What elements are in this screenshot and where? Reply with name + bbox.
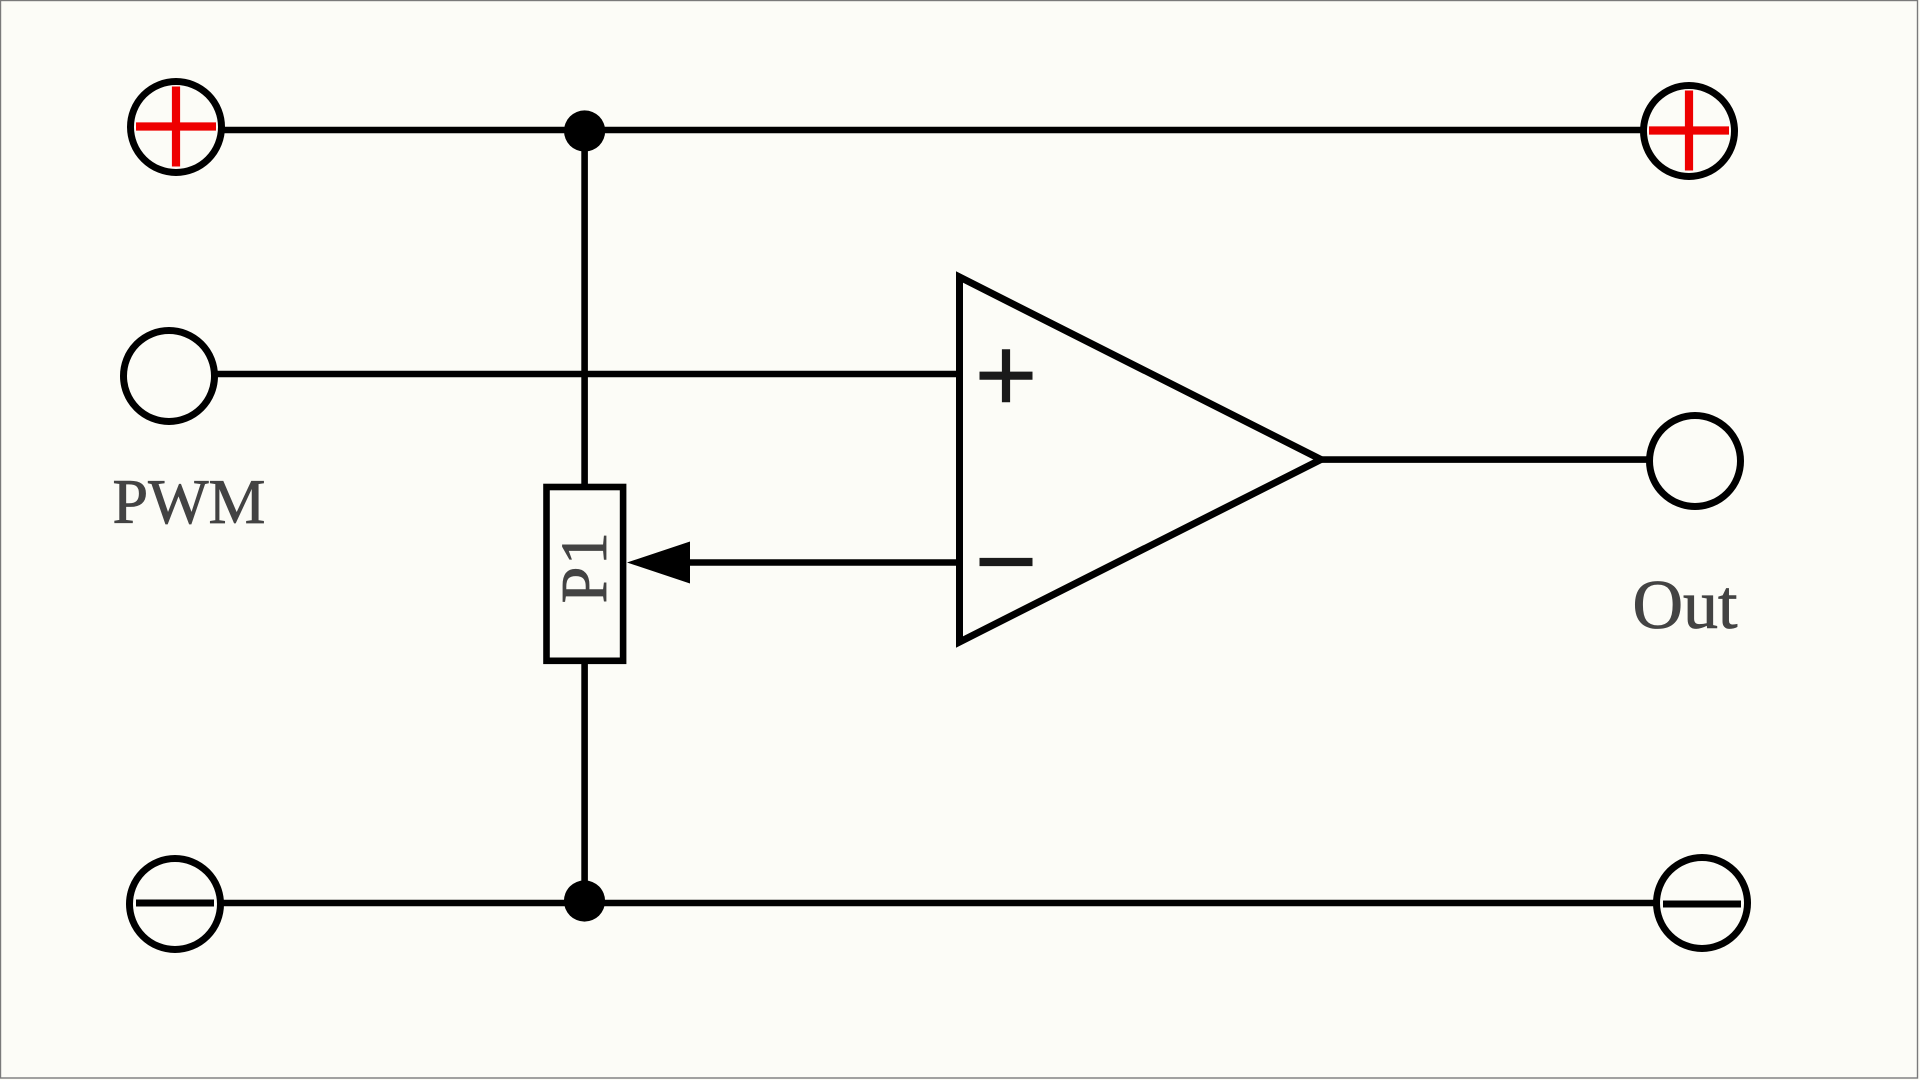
potentiometer P1 <box>547 487 624 661</box>
terminal PWM <box>124 331 215 422</box>
wire junction to P1 top <box>581 131 588 490</box>
svg-text:P1: P1 <box>548 531 621 604</box>
wire op-amp output to Out <box>1318 456 1648 463</box>
junction bottom rail <box>564 880 605 921</box>
svg-text:Out: Out <box>1633 567 1739 644</box>
junction top rail <box>564 110 605 151</box>
svg-text:PWM: PWM <box>113 466 266 537</box>
power terminal +V right <box>1644 86 1735 177</box>
terminal Out <box>1650 416 1741 507</box>
wire P1 bottom to bottom rail <box>581 660 588 903</box>
power terminal -V left <box>130 859 221 950</box>
wire top rail <box>222 127 1642 134</box>
wire bottom rail <box>221 900 1656 907</box>
wire op-amp inverting input to wiper <box>686 559 958 566</box>
wiper arrowhead <box>627 542 690 584</box>
power terminal +V left <box>131 82 222 173</box>
op-amp U1 <box>960 277 1322 642</box>
power terminal -V right <box>1657 858 1748 949</box>
wire PWM to op-amp non-inverting input <box>216 371 958 378</box>
